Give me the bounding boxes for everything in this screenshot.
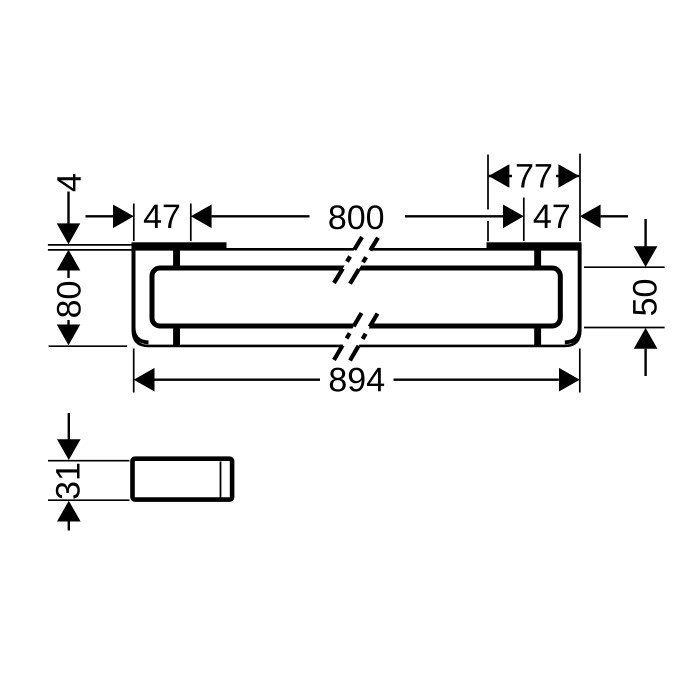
dim 4 arrow down (57, 223, 81, 244)
dim 50 arrow down (634, 246, 658, 267)
dim 894 arrow left (134, 368, 155, 392)
dim 80 bottom extension line (49, 345, 128, 347)
label 4 (57, 174, 80, 191)
dim 31 lower line (68, 522, 70, 531)
dim 80 line (67, 271, 69, 325)
label 50 (633, 280, 657, 315)
dim 77 arrow left (489, 164, 510, 188)
label 80 background (55, 278, 82, 320)
dim 4 leader line (67, 192, 69, 227)
dim 50 top ext line (584, 266, 665, 268)
dim 894 left ext line (133, 349, 135, 393)
break mark upper slash B (350, 238, 378, 284)
dim chain right tail (601, 215, 628, 217)
end view inner line (220, 462, 222, 498)
dim 4 extension line lower (48, 249, 132, 251)
label 47 right (534, 205, 569, 228)
dim 31 upper line (68, 413, 70, 441)
dim 31 arrow down (57, 439, 81, 460)
dim 894 arrow right (559, 368, 580, 392)
end view rectangle (133, 459, 233, 500)
dim 31 arrow up (57, 501, 81, 522)
dim 47 right arrow left (580, 205, 601, 229)
dim 47 left ext line a (133, 204, 135, 242)
left mounting post (173, 248, 180, 346)
dim 77 right ext line (579, 154, 581, 242)
dim 894 right ext line (579, 349, 581, 393)
label 800 (329, 205, 383, 229)
dim 80 arrow up (57, 250, 81, 271)
dim 47 left arrow right (113, 205, 134, 229)
outer shell right edge thick (565, 244, 580, 342)
label 80 (57, 282, 81, 317)
dim 800 right arrow (503, 205, 524, 229)
dim 31 top ext line (48, 460, 130, 462)
dim 800 left arrow (191, 205, 212, 229)
outer shell outline (133, 244, 581, 346)
dim 80 arrow down (57, 325, 81, 346)
outer shell left edge thick (134, 244, 149, 342)
towel bar profile (152, 268, 560, 326)
dim 4 extension line upper (48, 244, 132, 246)
label 77 (517, 164, 551, 187)
dim 50 arrow up (634, 328, 658, 349)
dim 77 line (489, 175, 580, 177)
dim 894 line (155, 379, 321, 381)
right mounting post (534, 248, 541, 346)
dim 50 lower line (644, 349, 646, 376)
dim 77 left ext line (487, 155, 489, 210)
dim chain left tail (86, 215, 114, 217)
label 31 (56, 464, 80, 499)
wall plate left segment (132, 242, 227, 248)
dim 800 line (212, 215, 310, 217)
break gap upper white band (334, 237, 378, 284)
break mark lower slash B (350, 314, 378, 361)
dim 31 bottom ext line (48, 499, 130, 501)
wall plate right segment (487, 242, 582, 248)
label 77 background (512, 160, 556, 192)
dim 77 arrow right (558, 164, 579, 188)
label 894 (330, 368, 384, 392)
label 47 left (144, 205, 179, 228)
dim 47 right ext line a (523, 198, 525, 242)
dim 50 upper line (644, 219, 646, 247)
break mark upper slash A (334, 237, 362, 283)
break mark lower slash A (334, 313, 362, 360)
outer shell top line (132, 248, 582, 251)
dim 47 left ext line b (190, 204, 192, 242)
dim 50 bottom ext line (584, 327, 665, 329)
break gap lower white band (334, 313, 378, 361)
